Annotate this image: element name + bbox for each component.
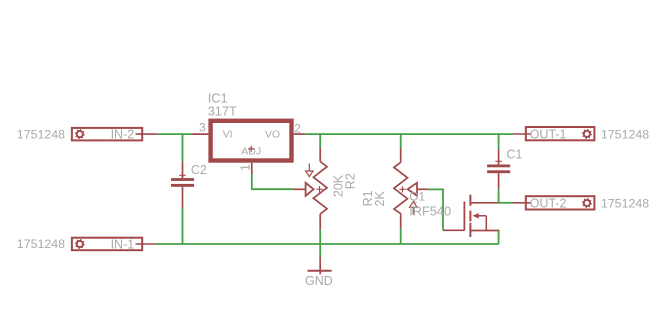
svg-text:VI: VI: [223, 129, 233, 141]
transistor Q1 IRF540 MOSFET: [443, 195, 499, 237]
svg-text:OUT-1: OUT-1: [530, 128, 567, 142]
svg-text:2: 2: [294, 122, 301, 136]
svg-text:317T: 317T: [208, 104, 237, 119]
wire C1 top drop: [498, 133, 500, 149]
svg-text:C2: C2: [191, 163, 207, 177]
wire C2 bottom drop: [182, 208, 184, 244]
wire C1 bottom to OUT-2 node: [498, 189, 500, 203]
wire gate vertical: [442, 189, 444, 231]
pin 3 VI lead: [192, 133, 208, 135]
svg-text:1: 1: [239, 164, 253, 171]
wire R1 bottom drop: [400, 229, 402, 245]
wire bottom rail IN-1: [155, 243, 498, 245]
wire R1 top drop: [400, 133, 402, 148]
svg-text:IN-2: IN-2: [111, 127, 135, 141]
pin 1 ADJ lead: [251, 163, 253, 174]
wire source drop: [498, 230, 500, 244]
pin 2 VO lead: [294, 133, 306, 135]
op-amp regulator IC1 317T body: [211, 121, 292, 161]
capacitor C1: [487, 149, 510, 189]
svg-text:R2: R2: [343, 173, 357, 189]
wire R2 top drop: [319, 133, 321, 147]
svg-text:C1: C1: [506, 147, 522, 161]
wire VO output rail: [306, 133, 513, 135]
wire ADJ horizontal to R2 wiper: [251, 188, 293, 190]
wire R1 wiper to gate horizontal: [428, 188, 443, 190]
svg-text:VO: VO: [265, 129, 280, 141]
svg-text:1751248: 1751248: [17, 127, 65, 141]
svg-text:2K: 2K: [373, 191, 387, 207]
svg-text:Q1: Q1: [409, 189, 425, 203]
connector X4 OUT-2: [512, 196, 594, 211]
connector X2 IN-2: [72, 127, 157, 141]
capacitor C2: [171, 161, 194, 207]
wire C2 top drop: [182, 133, 184, 161]
svg-text:1751248: 1751248: [601, 197, 649, 211]
wire net IN-2 top rail: [157, 133, 192, 135]
resistor trimmer R1 2K: [394, 148, 428, 229]
wire OUT-2 row segment: [499, 202, 513, 204]
svg-text:1751248: 1751248: [17, 237, 65, 251]
connector X1 IN-1: [72, 237, 155, 251]
resistor trimmer R2 20K: [293, 148, 327, 230]
svg-text:OUT-2: OUT-2: [530, 197, 567, 211]
svg-text:1751248: 1751248: [601, 127, 649, 141]
ground symbol GND: [308, 257, 332, 275]
svg-text:IN-1: IN-1: [111, 237, 135, 251]
connector X3 OUT-1: [513, 127, 595, 142]
wire R2 bottom drop: [319, 230, 321, 244]
svg-text:GND: GND: [305, 274, 333, 288]
wire ADJ vertical: [251, 174, 253, 189]
wire GND stub: [319, 244, 321, 257]
svg-text:3: 3: [199, 121, 206, 135]
svg-text:IRF540: IRF540: [409, 203, 451, 218]
